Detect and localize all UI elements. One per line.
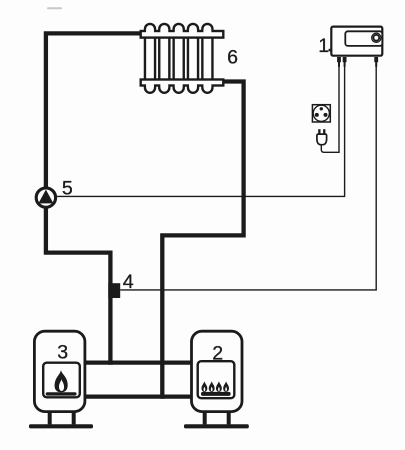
svg-text:3: 3 bbox=[57, 342, 68, 364]
svg-text:6: 6 bbox=[227, 47, 238, 69]
svg-text:4: 4 bbox=[123, 271, 134, 293]
svg-text:2: 2 bbox=[212, 342, 223, 364]
svg-text:1: 1 bbox=[318, 35, 329, 57]
svg-text:5: 5 bbox=[62, 177, 73, 199]
